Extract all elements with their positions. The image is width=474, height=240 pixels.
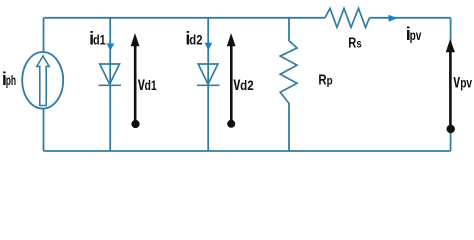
wire left vertical lower [43, 108, 45, 151]
current arrow i_d1 (blue, down) [107, 43, 115, 51]
svg-text:d2: d2 [189, 33, 202, 48]
label i_pv [406, 24, 422, 44]
label i_d2 [185, 29, 202, 49]
label i_d1 [89, 29, 106, 49]
current arrow i_d2 (blue, down) [205, 43, 213, 51]
current source I_ph (arrow symbol) [37, 56, 49, 106]
resistor Rp (shunt, vertical zigzag) [280, 41, 297, 104]
svg-text:pv: pv [410, 28, 422, 43]
label v_d2 [233, 74, 253, 95]
svg-text:d2: d2 [240, 78, 254, 93]
svg-text:R: R [348, 34, 356, 51]
wire Rp branch lower [288, 103, 290, 151]
diode D1 [99, 64, 121, 85]
resistor Rs (series, horizontal zigzag) [325, 8, 370, 27]
label v_d1 [138, 74, 157, 95]
svg-text:p: p [327, 76, 333, 88]
svg-text:d1: d1 [93, 33, 106, 48]
voltage arrow v_pv [446, 39, 455, 133]
svg-text:ph: ph [6, 73, 16, 88]
svg-text:s: s [356, 38, 361, 50]
wire Rp branch upper [288, 18, 290, 41]
wire top horizontal right of Rs [370, 17, 451, 19]
svg-text:d1: d1 [145, 78, 158, 93]
svg-text:pv: pv [460, 75, 472, 90]
label v_pv [453, 71, 472, 92]
wire right vertical [450, 18, 452, 151]
current arrow i_pv (blue, right, on top wire) [389, 15, 398, 22]
voltage arrow v_d2 [227, 33, 236, 128]
current source I_ph (circle) [22, 52, 63, 109]
wire diode D2 branch [207, 18, 209, 151]
wire left vertical upper [43, 18, 45, 53]
label i_ph [2, 69, 16, 89]
svg-text:R: R [318, 72, 326, 89]
voltage arrow v_d1 [131, 33, 140, 128]
wire diode D1 branch [109, 18, 111, 151]
label R_p [318, 72, 332, 89]
diode D2 [197, 64, 220, 85]
wire bottom horizontal [44, 150, 451, 152]
wire top horizontal left of Rs [44, 17, 326, 19]
label R_s [348, 34, 361, 51]
